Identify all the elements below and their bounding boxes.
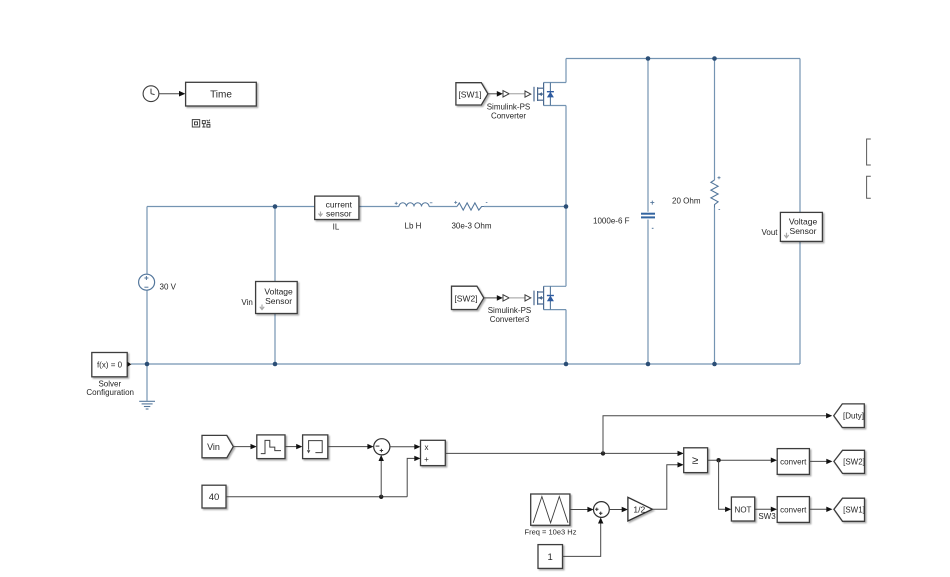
svg-text:Vout: Vout <box>761 228 778 237</box>
constant 40 <box>202 485 226 508</box>
svg-text:Vin: Vin <box>241 298 252 307</box>
block memory (loop icon) <box>303 435 328 459</box>
node: load resistor top junction <box>712 56 717 61</box>
wire: voltage sensor branch vertical <box>274 207 276 365</box>
svg-text:1/2: 1/2 <box>633 504 645 514</box>
wire convert2 to SW1 goto <box>809 507 832 512</box>
from tag [SW2] <box>452 286 484 309</box>
svg-text:40: 40 <box>209 492 220 503</box>
wire relational to convert <box>708 459 772 461</box>
svg-text:Lb H: Lb H <box>405 222 422 231</box>
svg-text:Sensor: Sensor <box>265 296 292 306</box>
wire: mid rail resistor to mosfet column <box>484 206 566 208</box>
svg-text:x: x <box>425 443 429 452</box>
wire SW2 tag to converter <box>484 297 498 299</box>
relational operator >= <box>684 448 708 473</box>
wire: load resistor branch lower <box>714 208 716 365</box>
node: mosfet column bottom junction <box>564 362 569 367</box>
current sensor block <box>315 196 359 219</box>
triangle wave generator block <box>531 494 570 525</box>
svg-text:1: 1 <box>548 552 553 563</box>
mosfet Q2 (lower) <box>525 286 554 309</box>
svg-text:f(x) = 0: f(x) = 0 <box>97 361 123 370</box>
svg-text:30e-3 Ohm: 30e-3 Ohm <box>451 222 491 231</box>
wire: solver config to bottom rail <box>131 363 147 365</box>
svg-text:Simulink-PS: Simulink-PS <box>487 103 531 112</box>
svg-text:Configuration: Configuration <box>86 388 134 397</box>
svg-text:30 V: 30 V <box>160 282 177 291</box>
node relational output <box>716 458 720 462</box>
svg-text:1000e-6 F: 1000e-6 F <box>593 217 630 226</box>
block convert (upper) <box>777 449 809 475</box>
sum2 (add) <box>594 502 610 518</box>
block NOT <box>731 497 754 521</box>
svg-text:Simulink-PS: Simulink-PS <box>488 306 532 315</box>
wire: lower mosfet source horizontal <box>544 309 566 311</box>
wire relational to NOT <box>719 460 732 512</box>
wire sum2 to gain <box>609 507 628 512</box>
node: source bottom junction <box>145 362 150 367</box>
sum1 (subtract) <box>374 439 390 455</box>
constant 1 <box>538 545 563 569</box>
voltage sensor block (input side) <box>256 282 298 314</box>
annotation 回路 (drawn glyphs) <box>192 120 210 128</box>
svg-text:[Duty]: [Duty] <box>843 412 864 421</box>
wire: mosfet column top to upper drain <box>565 59 567 83</box>
svg-text:Vin: Vin <box>207 442 220 452</box>
wire 1 to sum2 <box>563 517 604 556</box>
simulink-PS converter U1 (arrow icon) <box>497 91 509 97</box>
wire: lower mosfet drain horizontal <box>544 285 566 287</box>
svg-text:sensor: sensor <box>326 208 352 218</box>
node: capacitor top junction <box>646 56 651 61</box>
wire: upper mosfet source horizontal <box>544 105 566 107</box>
simulink-PS converter3 U2 (arrow icon) <box>497 295 509 301</box>
svg-text:Voltage: Voltage <box>789 217 818 227</box>
wire SW1 tag to converter <box>488 93 498 95</box>
svg-text:+: + <box>424 455 429 464</box>
wire: capacitor branch upper <box>647 59 649 212</box>
wire: top rail <box>566 58 800 60</box>
svg-text:[SW1]: [SW1] <box>458 89 481 99</box>
svg-text:Sensor: Sensor <box>790 226 817 236</box>
goto tag [SW1] <box>834 498 865 521</box>
node: RL to mosfet column junction <box>564 204 569 209</box>
node: capacitor bottom junction <box>646 362 651 367</box>
resistor R 30e-3 Ohm <box>454 201 487 210</box>
wire convert to SW2 goto <box>809 459 832 464</box>
node: load resistor bottom junction <box>712 362 717 367</box>
node: sensor branch top junction <box>273 204 278 209</box>
wire: mosfet column bottom <box>565 310 567 364</box>
wire rate block to memory <box>285 444 302 449</box>
svg-text:≥: ≥ <box>692 455 698 467</box>
svg-text:[SW2]: [SW2] <box>454 293 477 303</box>
bracket annotation lower <box>867 176 871 198</box>
capacitor C 1000e-6 F <box>641 201 655 229</box>
svg-text:[SW1]: [SW1] <box>843 505 865 514</box>
inductor Lb H <box>395 202 433 207</box>
voltage sensor block (output side) <box>780 212 822 241</box>
wire 40 to divide second input <box>407 456 420 497</box>
svg-text:convert: convert <box>780 457 807 466</box>
svg-text:Converter: Converter <box>491 112 526 121</box>
svg-text:Voltage: Voltage <box>264 287 293 297</box>
wire clock to Time <box>159 91 186 97</box>
wire NOT to convert2 <box>755 507 777 512</box>
block Time (To Workspace) <box>186 82 257 106</box>
wire gain to relational second input <box>652 462 683 509</box>
svg-text:Converter3: Converter3 <box>490 315 530 324</box>
voltage source V1 30 V <box>139 274 155 290</box>
wire duty branch <box>603 413 832 453</box>
svg-text:20 Ohm: 20 Ohm <box>672 197 701 206</box>
goto tag [Duty] <box>834 404 865 428</box>
bracket annotation upper <box>867 139 871 165</box>
from tag Vin <box>202 435 233 457</box>
wire converter to gate <box>509 93 525 95</box>
wire converter3 to gate <box>509 297 525 299</box>
block rate transition (staircase icon) <box>257 435 285 459</box>
mosfet Q1 (upper) <box>525 83 554 106</box>
wire: mid rail between inductor and resistor <box>429 206 457 208</box>
wire 40 to junction <box>226 496 407 498</box>
load resistor 20 Ohm (vertical) <box>711 176 721 209</box>
svg-text:Freq = 10e3 Hz: Freq = 10e3 Hz <box>525 528 577 537</box>
wire: bottom rail <box>147 363 800 365</box>
svg-text:[SW2]: [SW2] <box>843 457 865 466</box>
node duty branch <box>601 451 605 455</box>
svg-text:SW3: SW3 <box>758 512 776 521</box>
clock source <box>143 86 159 102</box>
wire memory to sum1 <box>328 444 374 449</box>
wire: right vertical (output sensor branch) <box>799 59 801 365</box>
wire: load resistor branch upper <box>714 59 716 181</box>
goto tag [SW2] <box>834 450 865 473</box>
solver configuration block f(x)=0 <box>92 353 132 377</box>
ground (electrical reference) <box>139 401 155 409</box>
wire: mosfet column middle <box>565 106 567 287</box>
from tag [SW1] <box>456 83 488 105</box>
wire trigen to sum2 <box>570 507 594 512</box>
wire: capacitor branch lower <box>647 220 649 365</box>
gain 1/2 <box>628 497 652 521</box>
wire: left vertical (source branch) <box>146 207 148 365</box>
wire: ground stub <box>146 364 148 401</box>
wire: mid rail left segment <box>147 206 399 208</box>
wire sum1 to divide <box>390 444 421 449</box>
svg-text:NOT: NOT <box>735 505 752 514</box>
block divide <box>421 440 446 465</box>
wire: upper mosfet drain horizontal <box>544 82 566 84</box>
svg-text:IL: IL <box>333 223 340 232</box>
wire Vin to rate block <box>233 444 256 449</box>
node 40 branch <box>379 495 383 499</box>
node: sensor branch bottom junction <box>273 362 278 367</box>
svg-text:Time: Time <box>210 90 232 101</box>
wire junction up to sum1 <box>379 455 384 497</box>
svg-text:convert: convert <box>780 505 807 514</box>
block convert2 (lower) <box>777 497 809 523</box>
wire divide output to relational <box>445 452 678 454</box>
